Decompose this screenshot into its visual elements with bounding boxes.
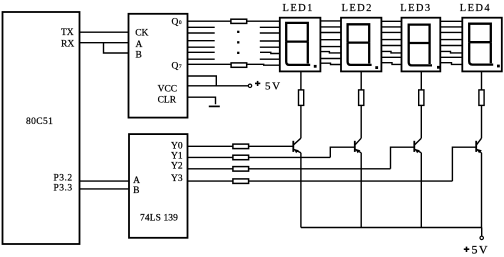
wire Q3 stub — [188, 40, 215, 42]
wire VCC upper pin — [188, 76, 217, 86]
svg-text:A: A — [133, 176, 140, 186]
resistor R1 — [231, 19, 247, 23]
wire TX to CK — [80, 31, 129, 33]
svg-text:RX: RX — [61, 39, 74, 49]
wire branch A to B — [104, 43, 129, 53]
display LED1 — [280, 3, 321, 71]
svg-text:Y1: Y1 — [171, 152, 183, 162]
LED1 decimal point — [314, 65, 317, 68]
wire VCC to +5V — [188, 85, 249, 87]
LED4 digit 8 — [469, 24, 493, 65]
ground — [209, 105, 220, 107]
resistor R9 — [233, 167, 249, 172]
wire stubs into LED1 — [260, 27, 280, 59]
wire rail to +5V — [481, 228, 483, 237]
svg-text:A: A — [136, 40, 143, 50]
wire Q2 emitter down — [360, 153, 362, 228]
wire Q1 stub — [188, 26, 215, 28]
svg-text:LED3: LED3 — [400, 3, 431, 14]
wire Q6 stub — [188, 58, 215, 60]
ellipsis dots — [237, 31, 239, 54]
resistor R5 — [419, 90, 424, 106]
wire Y3 to Q4 base — [188, 180, 233, 182]
svg-text:CLR: CLR — [158, 96, 177, 106]
LED2 decimal point — [375, 66, 378, 69]
wire LED2 anode down — [360, 71, 362, 90]
transistor Q1 — [293, 138, 301, 153]
svg-text:VCC: VCC — [158, 85, 178, 95]
microcontroller U1 80C51 — [3, 12, 80, 244]
svg-text:LED2: LED2 — [342, 3, 373, 14]
LED2 digit 8 — [348, 24, 372, 65]
wire P3.2 to A — [80, 180, 130, 182]
resistor R10 — [233, 179, 249, 184]
svg-text:74LS 139: 74LS 139 — [140, 214, 178, 224]
transistor Q3 — [414, 138, 421, 153]
wire Q1 emitter down — [300, 153, 302, 228]
svg-text:B: B — [136, 50, 142, 60]
wire Q2 stub — [188, 32, 215, 34]
display LED4 — [460, 3, 502, 71]
wire Q4 emitter down — [481, 153, 483, 228]
resistor R4 — [359, 90, 364, 106]
wire Q3 emitter down — [420, 153, 422, 228]
bus rungs LED2-LED3 — [381, 21, 401, 64]
svg-text:LED1: LED1 — [283, 3, 314, 14]
svg-text:LED4: LED4 — [460, 3, 491, 14]
display LED3 — [400, 3, 440, 71]
bus rungs LED1-LED2 — [320, 21, 341, 65]
resistor R7 — [233, 144, 249, 149]
resistor R6 — [479, 90, 484, 106]
resistor R8 — [233, 155, 249, 160]
transistor Q4 — [476, 138, 482, 153]
svg-text:P3.2: P3.2 — [54, 174, 73, 184]
wire RX to A — [80, 42, 129, 44]
svg-text:P3.3: P3.3 — [54, 184, 73, 194]
wire Q0 line — [188, 20, 231, 22]
LED1 digit 8 — [286, 23, 310, 65]
LED3 decimal point — [437, 66, 440, 69]
resistor R2 — [231, 63, 247, 67]
wire P3.3 to B — [80, 188, 130, 190]
+5V terminal top — [248, 81, 281, 93]
wire Q7 line — [188, 63, 232, 65]
svg-text:Y2: Y2 — [171, 162, 183, 172]
wire Q5 stub — [188, 51, 215, 53]
transistor Q2 — [355, 138, 361, 153]
svg-text:Y0: Y0 — [171, 141, 183, 151]
+5V terminal bottom — [464, 236, 489, 256]
svg-text:5V: 5V — [265, 81, 282, 93]
decoder U3 74LS139 — [129, 134, 188, 238]
display LED2 — [341, 3, 381, 71]
bus rungs LED3-LED4 — [440, 21, 462, 64]
wire CLR to ground — [188, 97, 216, 104]
svg-text:80C51: 80C51 — [26, 117, 53, 127]
svg-text:5V: 5V — [472, 243, 489, 257]
svg-text:CK: CK — [135, 29, 148, 39]
wire Y1 to Q2 base — [188, 156, 233, 158]
svg-text:TX: TX — [61, 28, 74, 38]
wire Y2 to Q3 base — [188, 168, 233, 170]
resistor R3 — [299, 90, 304, 106]
emitter rail — [301, 227, 482, 229]
wire LED4 anode down — [481, 71, 483, 90]
svg-text:B: B — [133, 186, 139, 196]
LED4 decimal point — [497, 65, 500, 68]
wire LED1 anode down — [300, 71, 302, 90]
wire Q4 stub — [188, 46, 215, 48]
LED3 digit 8 — [409, 25, 432, 66]
wire Y0 to Q1 base — [188, 145, 233, 147]
wire LED3 anode down — [420, 71, 422, 90]
shift register U2 — [129, 14, 188, 118]
svg-text:Y3: Y3 — [171, 174, 183, 184]
